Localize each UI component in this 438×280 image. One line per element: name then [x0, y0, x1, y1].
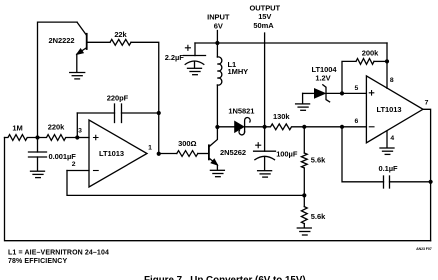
op-amp U1B LT1013	[366, 76, 423, 143]
svg-text:1N5821: 1N5821	[228, 106, 254, 115]
svg-text:8: 8	[390, 77, 394, 84]
resistor 220k	[38, 135, 78, 141]
transistor Q1 2N2222	[76, 22, 86, 72]
pin 3 wire	[77, 137, 89, 139]
node junction 200k/pin8	[385, 59, 389, 63]
svg-text:L1 = AIE–VERNITRON 24–104: L1 = AIE–VERNITRON 24–104	[8, 249, 109, 256]
node junction pin3	[75, 135, 79, 139]
svg-text:22k: 22k	[114, 30, 127, 39]
svg-text:50mA: 50mA	[253, 21, 274, 30]
wire pin8 from rail	[386, 43, 388, 88]
wire pin7 output to right rail	[423, 109, 431, 240]
ground (100uF)	[258, 171, 272, 177]
node junction L1/diode/Q2 collector	[215, 125, 219, 129]
node junction diode cathode/output	[263, 125, 267, 129]
node junction input/L1	[215, 41, 219, 45]
node junction pin6/0.1uF	[340, 125, 344, 129]
svg-text:15V: 15V	[258, 12, 271, 21]
svg-text:5.6k: 5.6k	[311, 156, 326, 165]
wire bottom feedback rail	[5, 138, 431, 241]
svg-text:2N2222: 2N2222	[49, 36, 75, 45]
wire top-left loop (Q1 collector to input node)	[38, 22, 78, 137]
svg-text:200k: 200k	[362, 48, 379, 57]
wire 220pF left to pin3 node	[76, 113, 78, 138]
ground (divider)	[297, 228, 311, 235]
svg-text:1: 1	[148, 145, 152, 152]
svg-text:100µF: 100µF	[276, 150, 298, 159]
transistor Q2 2N5262	[209, 127, 218, 170]
ground (2.2uF)	[188, 68, 202, 74]
svg-text:LT1013: LT1013	[99, 149, 124, 158]
wire 22k to vertical feed	[131, 42, 159, 113]
wire OUTPUT stub	[264, 33, 266, 127]
node junction 0.1uF/right rail	[429, 180, 433, 184]
svg-text:5.6k: 5.6k	[311, 212, 326, 221]
ground (Q2 emitter)	[210, 170, 224, 176]
svg-text:0.1µF: 0.1µF	[378, 164, 398, 173]
svg-text:220k: 220k	[48, 123, 65, 132]
svg-text:1MHY: 1MHY	[228, 67, 249, 76]
resistor 1M	[5, 135, 38, 141]
zener LT1004	[303, 85, 342, 104]
svg-text:INPUT: INPUT	[207, 12, 230, 21]
wire pin4 to ground	[386, 131, 388, 148]
node junction divider mid	[302, 193, 306, 197]
capacitor 0.1uF	[384, 176, 431, 188]
wire top rail	[195, 42, 387, 44]
svg-text:LT1013: LT1013	[377, 105, 402, 114]
node junction 130k/5.6k	[302, 125, 306, 129]
ground (0.001uF)	[31, 171, 45, 177]
capacitor 2.2uF	[184, 43, 206, 68]
ground (pin4)	[380, 148, 394, 154]
capacitor 0.001uF	[29, 138, 47, 171]
wire pin5	[342, 92, 366, 94]
wire INPUT stub	[216, 31, 218, 44]
svg-text:220pF: 220pF	[107, 94, 129, 103]
resistor 200k	[342, 59, 387, 94]
wire Q1 base to 22k	[87, 41, 110, 43]
resistor 5.6k upper	[301, 127, 307, 196]
diode D1 1N5821	[217, 118, 264, 135]
node junction 220pF right	[157, 111, 161, 115]
capacitor 220pF	[77, 104, 158, 123]
wire 300ohm to Q2 base	[198, 153, 209, 155]
wire pin6 node to 0.1uF	[342, 127, 384, 182]
svg-text:7: 7	[425, 100, 429, 107]
svg-text:130k: 130k	[273, 112, 290, 121]
inductor L1	[217, 43, 221, 127]
node junction 1M/220k/0.001uF	[35, 135, 39, 139]
op-amp U1A LT1013	[89, 120, 147, 187]
svg-text:AN23 F07: AN23 F07	[416, 247, 432, 251]
svg-text:300Ω: 300Ω	[178, 139, 196, 148]
resistor 130k	[265, 124, 305, 130]
wire op-amp1 output to 300ohm	[159, 153, 177, 155]
wire 130k node to pin6	[304, 126, 366, 128]
resistor 22k	[110, 39, 131, 45]
wire feedback divider to pin2	[67, 171, 304, 196]
node junction op-amp1 output	[157, 152, 161, 156]
plus sign 100uF	[256, 143, 261, 148]
pin 2 wire	[67, 170, 89, 172]
svg-text:1.2V: 1.2V	[315, 74, 330, 83]
resistor 300ohm	[177, 151, 198, 157]
resistor 5.6k lower	[301, 195, 307, 227]
svg-text:Figure 7. Up Converter (6V to: Figure 7. Up Converter (6V to 15V)	[144, 275, 306, 280]
svg-text:0.001µF: 0.001µF	[49, 152, 77, 161]
capacitor 100uF	[254, 127, 276, 170]
svg-text:6V: 6V	[214, 22, 223, 31]
wire vertical 220pF node to op-amp1 output	[158, 113, 160, 154]
svg-text:2: 2	[72, 161, 76, 168]
node junction pin5	[340, 91, 344, 95]
svg-text:4: 4	[390, 135, 394, 142]
svg-text:78% EFFICIENCY: 78% EFFICIENCY	[8, 258, 67, 265]
ground (LT1004)	[296, 104, 310, 110]
plus sign 2.2uF	[185, 45, 190, 50]
svg-text:2.2µF: 2.2µF	[165, 53, 185, 62]
ground (Q1 emitter)	[70, 73, 85, 79]
svg-text:3: 3	[78, 128, 82, 135]
svg-text:6: 6	[355, 118, 359, 125]
svg-text:5: 5	[355, 85, 359, 92]
svg-text:2N5262: 2N5262	[220, 148, 246, 157]
svg-text:1M: 1M	[12, 124, 22, 133]
